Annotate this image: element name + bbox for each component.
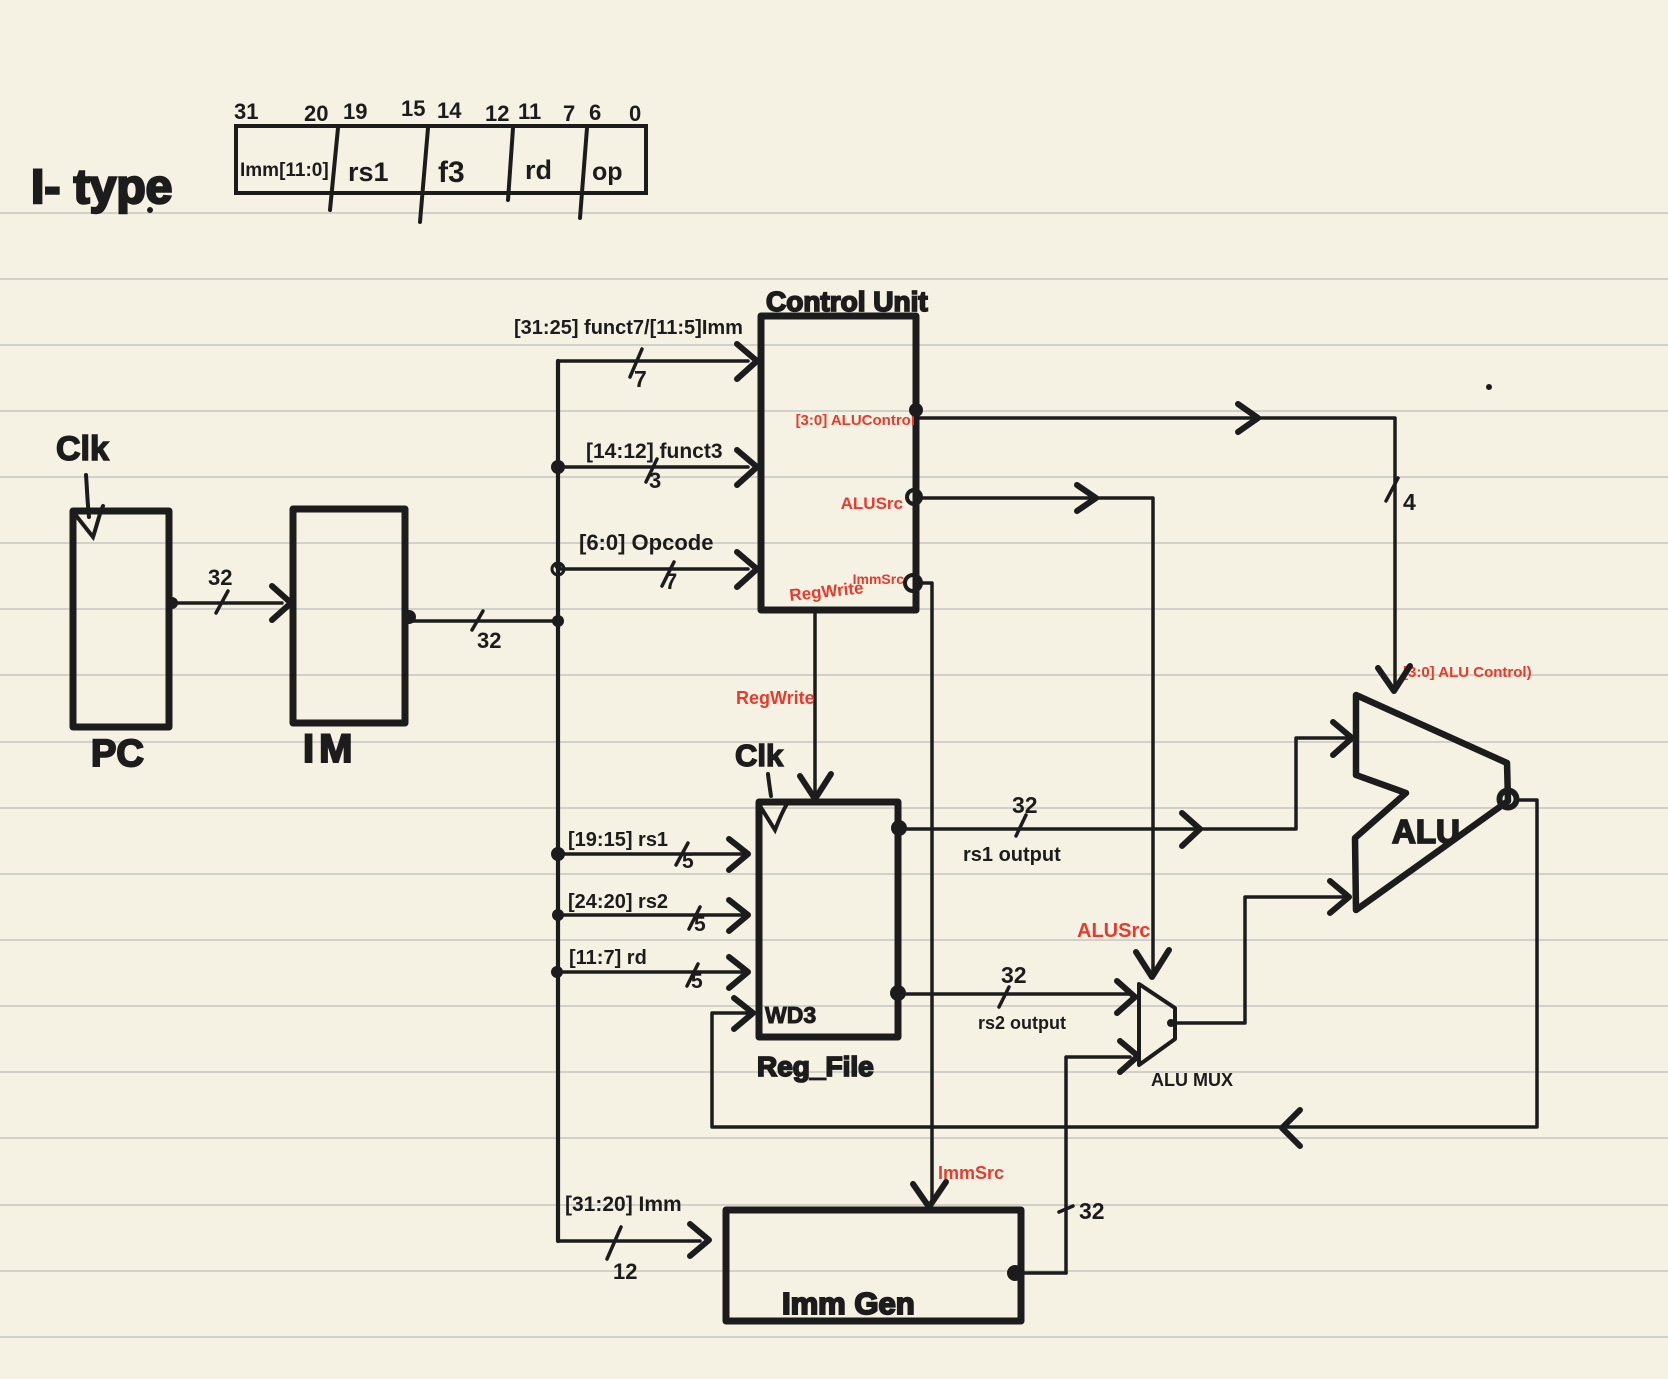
svg-text:12: 12 [485, 101, 509, 126]
svg-text:ALUSrc: ALUSrc [1077, 920, 1150, 942]
svg-text:15: 15 [401, 96, 425, 121]
svg-text:[24:20] rs2: [24:20] rs2 [568, 891, 668, 913]
svg-text:31: 31 [234, 99, 258, 124]
svg-text:[14:12] funct3: [14:12] funct3 [586, 440, 723, 463]
svg-text:3: 3 [649, 468, 661, 493]
svg-text:Imm[11:0]: Imm[11:0] [240, 160, 329, 181]
svg-text:14: 14 [437, 98, 462, 123]
svg-text:[19:15] rs1: [19:15] rs1 [568, 829, 668, 851]
svg-text:[3:0] ALUControl: [3:0] ALUControl [796, 412, 915, 429]
svg-text:5: 5 [682, 850, 694, 873]
svg-text:0: 0 [629, 101, 641, 126]
svg-text:[31:20] Imm: [31:20] Imm [565, 1193, 682, 1216]
svg-text:12: 12 [613, 1259, 637, 1284]
svg-text:5: 5 [694, 913, 706, 936]
svg-text:32: 32 [1079, 1198, 1105, 1224]
svg-text:Reg_File: Reg_File [757, 1051, 874, 1082]
svg-text:op: op [592, 158, 623, 186]
svg-text:11: 11 [518, 99, 541, 124]
svg-text:Clk: Clk [735, 738, 784, 773]
svg-text:[11:7] rd: [11:7] rd [569, 947, 647, 969]
svg-text:IM: IM [303, 727, 357, 771]
svg-text:7: 7 [563, 101, 575, 126]
svg-text:rd: rd [525, 155, 552, 185]
svg-text:Clk: Clk [56, 430, 109, 468]
svg-text:rs1 output: rs1 output [963, 844, 1061, 866]
svg-text:32: 32 [1012, 792, 1038, 818]
svg-text:WD3: WD3 [765, 1002, 816, 1028]
svg-text:4: 4 [1403, 489, 1416, 515]
svg-text:5: 5 [691, 970, 703, 993]
svg-text:f3: f3 [438, 156, 465, 189]
svg-text:7: 7 [634, 366, 647, 392]
svg-text:32: 32 [477, 628, 501, 653]
svg-text:[3:0] ALU Control): [3:0] ALU Control) [1403, 664, 1532, 681]
svg-text:I- type: I- type [31, 161, 172, 214]
svg-text:rs2 output: rs2 output [978, 1013, 1066, 1033]
svg-text:6: 6 [589, 100, 601, 125]
svg-text:rs1: rs1 [348, 157, 389, 187]
svg-text:Control Unit: Control Unit [766, 286, 928, 317]
svg-text:Imm Gen: Imm Gen [782, 1286, 915, 1321]
svg-text:20: 20 [304, 101, 328, 126]
svg-text:ALUSrc: ALUSrc [841, 494, 903, 513]
svg-text:PC: PC [91, 733, 144, 775]
svg-text:[31:25] funct7/[11:5]Imm: [31:25] funct7/[11:5]Imm [514, 317, 743, 339]
svg-text:32: 32 [208, 565, 232, 590]
svg-text:[6:0] Opcode: [6:0] Opcode [579, 530, 713, 555]
svg-text:19: 19 [343, 99, 367, 124]
svg-text:RegWrite: RegWrite [736, 688, 815, 708]
svg-text:7: 7 [665, 569, 677, 594]
svg-text:ALU MUX: ALU MUX [1151, 1070, 1233, 1090]
svg-text:ALU: ALU [1392, 813, 1460, 850]
svg-text:32: 32 [1001, 962, 1027, 988]
